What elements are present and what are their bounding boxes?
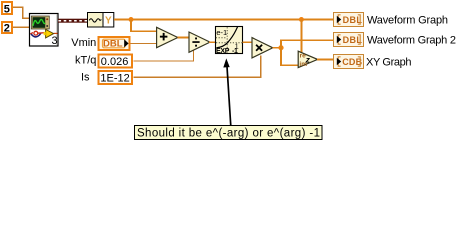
svg-text:kT/q: kT/q (75, 54, 96, 66)
svg-text:Y: Y (105, 15, 112, 26)
subVI icon (scope) with label 3 (30, 14, 59, 48)
numeric constant 1E-12 (99, 71, 133, 84)
get waveform components node (~ Y) (88, 13, 114, 28)
dynamic data wire (dashed) (58, 19, 88, 23)
svg-text:Is: Is (81, 72, 90, 84)
svg-text:3: 3 (52, 35, 58, 47)
annotation text box (135, 126, 323, 140)
svg-text:5: 5 (4, 3, 10, 15)
numeric constant 0.026 (99, 55, 133, 69)
wire from constant 5 to VI icon (13, 7, 30, 19)
indicator terminal DBL (Waveform Graph) (334, 13, 364, 27)
svg-text:Should it be e^(-arg) or e^(ar: Should it be e^(-arg) or e^(arg) -1 (137, 128, 320, 140)
svg-text:0.026: 0.026 (101, 56, 129, 68)
multiply node (x) (252, 38, 273, 58)
wire branch down to add node (130, 20, 157, 33)
svg-text:2: 2 (4, 23, 10, 35)
main Y array wire to Waveform Graph (114, 19, 333, 21)
junction B (multiply output) (278, 45, 283, 50)
wire exp to multiply (243, 41, 253, 43)
wire Is to multiply node (134, 56, 262, 79)
control terminal Vmin DBL (99, 37, 130, 50)
wire multiply to junction (272, 47, 281, 49)
exp(x)-1 function icon (216, 27, 243, 56)
wire kT/q to divide node (134, 50, 195, 62)
re/im to complex node (298, 51, 317, 68)
junction C (re branch on main wire) (299, 17, 304, 22)
svg-text:XY Graph: XY Graph (366, 56, 412, 68)
svg-text:Vmin: Vmin (71, 37, 96, 49)
wire down to im input (280, 48, 299, 67)
svg-text:z: z (305, 55, 311, 65)
wire down to re input (301, 20, 303, 55)
svg-text:DBL: DBL (103, 39, 123, 50)
svg-text:e-1: e-1 (216, 28, 227, 37)
numeric constant 2 (2, 22, 12, 33)
svg-text:1E-12: 1E-12 (100, 72, 129, 84)
wire add to divide (177, 37, 189, 39)
indicator terminal DBL (Waveform Graph 2) (334, 33, 364, 47)
svg-text:Waveform Graph: Waveform Graph (367, 15, 448, 27)
svg-text:Waveform Graph 2: Waveform Graph 2 (367, 35, 456, 47)
add node (+) (157, 27, 178, 47)
numeric constant 5 (2, 2, 12, 14)
annotation arrow (223, 58, 231, 126)
wire up to Waveform Graph 2 (280, 39, 333, 47)
indicator terminal CDB (XY Graph) (334, 55, 364, 69)
wire z to XY Graph (317, 59, 334, 61)
wire Vmin to add node (131, 43, 157, 44)
svg-text:EXP: EXP (216, 48, 230, 55)
svg-text:-1: -1 (232, 48, 238, 55)
divide node (189, 32, 210, 52)
wire divide to exp (209, 41, 216, 43)
wire from constant 2 to VI icon (13, 27, 30, 28)
junction A (branch to add) (129, 17, 134, 22)
